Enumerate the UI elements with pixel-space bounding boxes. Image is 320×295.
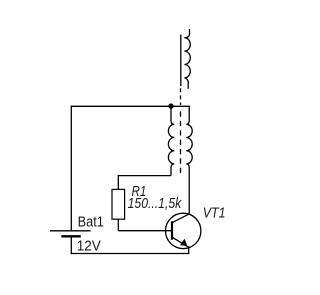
battery Bat1 negative plate (short thick) (61, 235, 80, 237)
transistor VT1 emitter arrow (180, 239, 187, 246)
wire: emitter lead vertical (188, 246, 190, 254)
svg-text:Bat1: Bat1 (78, 213, 104, 230)
transistor VT1 collector diagonal (173, 214, 190, 223)
wire: base wire from R1 to base (118, 230, 172, 232)
resistor R1 body (112, 189, 125, 219)
battery Bat1 positive plate (long) (50, 230, 91, 232)
transformer T1 right (collector) winding with leads (186, 106, 192, 214)
svg-text:VT1: VT1 (203, 206, 226, 222)
wire: bottom rail (emitter return) (71, 253, 189, 255)
node junction dot (168, 103, 173, 108)
transistor VT1 body circle (166, 213, 201, 248)
transistor VT1 emitter diagonal (173, 237, 189, 247)
wire: battery minus down to bottom rail (70, 237, 72, 254)
wire: R1 top lead (117, 176, 119, 190)
transformer T1 secondary (top) winding (184, 29, 190, 89)
svg-text:150...1,5k: 150...1,5k (128, 196, 182, 212)
wire: R1 top to primary winding bottom (118, 175, 171, 177)
transformer core dashed segment (180, 88, 182, 105)
wire: R1 bottom lead (117, 219, 119, 231)
transistor VT1 base bar (171, 221, 173, 240)
wire: left rail down to battery (70, 106, 72, 231)
svg-text:12V: 12V (77, 238, 101, 255)
transformer T1 left (feedback) winding with leads (168, 106, 174, 175)
wire: junction to right winding top (171, 105, 190, 107)
wire: top rail from battery + to junction (71, 105, 171, 107)
transformer core solid segment (top) (180, 35, 182, 87)
